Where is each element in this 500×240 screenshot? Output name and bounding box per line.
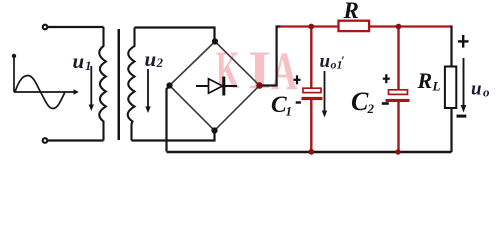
label C2 (351, 87, 375, 116)
label uo1' (320, 51, 346, 72)
svg-text:2: 2 (367, 101, 375, 116)
wire bridge right corner to top (263, 27, 282, 86)
resistor R (339, 21, 370, 31)
svg-text:2: 2 (156, 55, 164, 70)
capacitor C2 top plate (389, 90, 408, 95)
capacitor C1 branch upper (310, 27, 312, 89)
node bottom corner (211, 127, 217, 133)
bridge rectifier diamond (170, 42, 260, 131)
svg-text:R: R (343, 0, 359, 23)
uo reference arrow (463, 58, 465, 107)
label RL (417, 68, 441, 94)
svg-text:C: C (351, 87, 369, 116)
svg-text:L: L (432, 79, 441, 94)
u1 reference arrow (90, 66, 92, 107)
watermark KIA (216, 40, 298, 101)
input terminal bottom (43, 138, 48, 143)
wire red top bus left of R (280, 25, 339, 27)
capacitor C1 top plate (303, 88, 321, 92)
node left corner (166, 82, 172, 88)
svg-text:K: K (216, 41, 239, 100)
capacitor C1 branch lower (310, 100, 312, 152)
svg-text:R: R (417, 68, 433, 93)
resistor RL (445, 67, 456, 109)
svg-text:u: u (73, 49, 85, 73)
wire RL branch bottom (450, 108, 452, 152)
label u2 (145, 47, 164, 71)
capacitor C2 branch upper (397, 27, 399, 90)
u2 reference arrow (147, 69, 149, 109)
capacitor C1 bottom plate (302, 97, 323, 100)
wire top-left feed (48, 26, 104, 28)
label C1 (271, 92, 292, 119)
transformer secondary winding (128, 28, 135, 141)
capacitor C2 bottom plate (386, 99, 410, 102)
label uo (471, 78, 490, 99)
node C2 top junction (396, 24, 402, 30)
C2 minus sign (382, 102, 389, 105)
svg-text:u: u (145, 47, 157, 71)
C1 plus sign (294, 75, 301, 84)
node top corner (212, 38, 218, 44)
wire RL branch top (451, 27, 452, 67)
svg-text:′: ′ (341, 53, 345, 68)
wire red top bus right of R (369, 25, 450, 27)
uo1' reference arrow (324, 71, 326, 113)
C2 plus sign (383, 74, 390, 83)
node C1 bottom junction (308, 149, 314, 155)
diode D inside bridge (196, 85, 237, 87)
capacitor C2 branch lower (397, 102, 399, 152)
transformer core (118, 29, 121, 140)
node C1 top junction (308, 24, 314, 30)
wire ground rail (167, 151, 452, 153)
svg-text:u: u (320, 51, 331, 72)
svg-text:I: I (248, 40, 271, 100)
output minus sign (457, 115, 467, 118)
wire bottom-left feed (48, 139, 104, 141)
node right corner (DC+) (256, 82, 263, 89)
node C2 bottom junction (395, 149, 400, 154)
C1 minus sign (296, 101, 301, 103)
input terminal top (43, 25, 48, 30)
wire secondary top to bridge (135, 28, 215, 40)
wire bridge left corner down (167, 87, 170, 152)
AC source sine symbol (14, 56, 75, 109)
output plus sign (458, 35, 469, 48)
label u1 (73, 49, 92, 73)
svg-text:1: 1 (286, 104, 293, 119)
wire secondary bottom to bridge (132, 133, 215, 141)
svg-text:o: o (483, 85, 490, 100)
svg-text:u: u (471, 78, 482, 99)
transformer primary winding (99, 27, 106, 141)
